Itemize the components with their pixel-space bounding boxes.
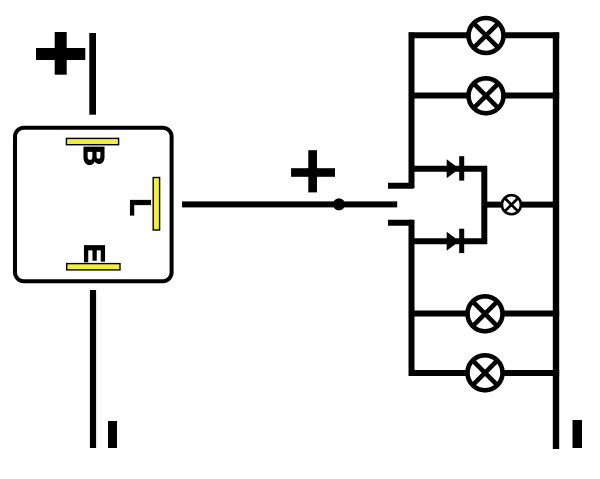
wire rung 1 (top lamp) — [409, 32, 560, 38]
flasher relay box U1 — [15, 128, 172, 282]
terminal pad E (yellow) — [67, 264, 120, 270]
right return rail — [553, 32, 559, 449]
wire from diode node to indicator lamp — [484, 202, 556, 208]
switch lower contact stub — [388, 220, 413, 226]
left lamp rail (lower section) — [409, 220, 415, 376]
battery positive terminal symbol (+) top left — [36, 32, 85, 75]
diode D1 branch wire (upper) — [412, 169, 485, 205]
lamp LP2 (second) — [469, 78, 504, 113]
wire rung 3 (third lamp) — [409, 311, 560, 317]
switch upper contact stub — [388, 183, 413, 189]
lamp LP3 (third) — [468, 296, 503, 331]
wire from flasher terminal L to switch node — [182, 201, 397, 207]
indicator lamp LP5 (small, middle) — [502, 195, 521, 214]
diode D2 (lower, pointing right) — [447, 229, 465, 253]
svg-text:E: E — [78, 244, 110, 263]
junction dot on L wire — [333, 198, 345, 210]
wire from flasher terminal E down to ground — [90, 290, 96, 448]
diode D2 branch wire (lower) — [412, 205, 485, 242]
left lamp rail (upper section) — [409, 32, 415, 188]
svg-text:B: B — [77, 145, 109, 166]
svg-text:L: L — [123, 198, 155, 215]
lamp LP1 (top) — [469, 18, 504, 53]
diode D1 (upper, pointing right) — [447, 156, 465, 180]
positive supply marker (+) middle — [291, 150, 335, 192]
battery negative terminal symbol (-) bottom left — [108, 421, 117, 448]
terminal pad L (yellow) — [153, 178, 159, 231]
wire from battery + down to flasher terminal B — [89, 33, 96, 115]
wire rung 4 (bottom lamp) — [409, 370, 560, 376]
wire rung 2 (second lamp) — [409, 93, 560, 99]
battery negative terminal symbol (-) bottom right — [573, 420, 583, 448]
lamp LP4 (bottom) — [468, 355, 503, 390]
terminal pad B (yellow) — [66, 138, 118, 144]
